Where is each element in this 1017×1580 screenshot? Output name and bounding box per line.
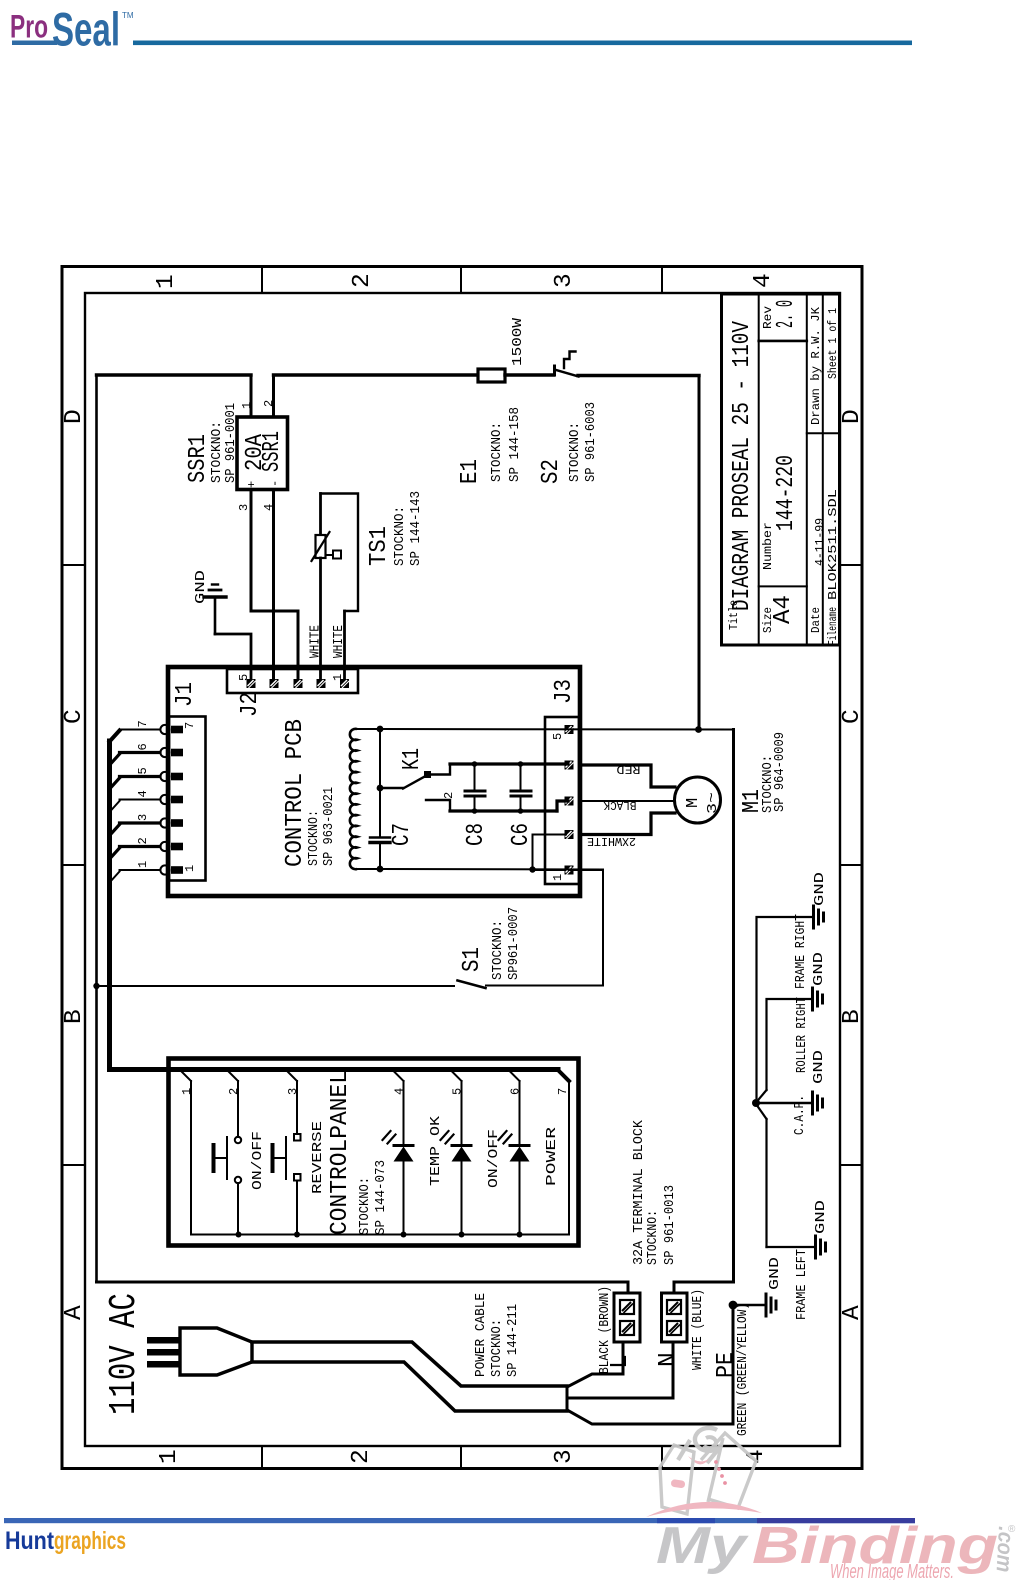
motor M1 body	[675, 777, 721, 823]
wire ROLLER RIGHT diagonal to junction	[757, 1090, 767, 1102]
push button REVERSE bridge	[285, 1137, 287, 1179]
push button ON/OFF top contact	[235, 1137, 241, 1143]
FRAME LEFT label	[794, 1249, 810, 1320]
GND label (C.A.P.)	[811, 1050, 827, 1084]
wire PE ground stem	[733, 1304, 765, 1306]
push button REVERSE top contact	[294, 1134, 301, 1141]
connector J2 label	[237, 692, 264, 717]
power cable upper outline	[252, 1342, 567, 1386]
svg-text:When Image Matters.: When Image Matters.	[830, 1561, 954, 1580]
CONTROL PCB board outline	[168, 667, 580, 896]
LED ON/OFF cathode bar	[452, 1144, 471, 1147]
connector J2 pin 4 contact	[270, 679, 279, 688]
LED ON/OFF triangle	[452, 1147, 472, 1162]
GND label (frame left)	[813, 1200, 829, 1234]
junction S1 line on L bus	[93, 983, 99, 989]
ground symbol PE	[766, 1294, 776, 1316]
M1 reference label	[739, 789, 766, 813]
push button switch ON/OFF wire top	[237, 1081, 239, 1137]
LED POWER wire bottom	[519, 1161, 521, 1235]
wire C7/K1 branch vertical	[379, 729, 381, 869]
LED label ON/OFF	[486, 1129, 502, 1188]
K1 pin 2 label	[442, 792, 456, 799]
frame ruler ticks bottom	[262, 1446, 662, 1468]
LED TEMP OK triangle	[394, 1147, 414, 1162]
J1 pin 7 number (inside housing)	[183, 722, 197, 729]
wire label RED	[617, 762, 641, 776]
CONTROLPANEL part number label	[373, 1160, 389, 1235]
junction C6 bottom	[518, 808, 524, 814]
wire loom end bend to panel pin7	[558, 1070, 569, 1081]
wire label WHITE (BLUE)	[690, 1289, 706, 1370]
panel pin 3 drop from loom	[288, 1072, 298, 1082]
wire SSR1 pin3 to J2 pin3 elbow	[251, 611, 298, 679]
frame zone number 4 (top)	[750, 273, 777, 288]
LED label POWER	[544, 1126, 560, 1186]
junction panel rail at x=461.5	[459, 1232, 465, 1238]
wire label GREEN (GREEN/YELLOW)	[735, 1303, 751, 1436]
push button ON/OFF bottom contact	[235, 1177, 241, 1183]
PE label	[713, 1352, 740, 1378]
relay contact K1 arm	[380, 776, 427, 789]
ground symbol FRAME RIGHT	[814, 906, 824, 928]
wire K1 to top rail	[431, 764, 450, 775]
panel pin 7 number	[556, 1088, 570, 1095]
panel pin 2 number	[227, 1088, 241, 1095]
push button REVERSE wire bottom	[296, 1181, 298, 1235]
connector J1 pin 7 contact	[160, 725, 183, 734]
K1 reference label	[399, 748, 426, 770]
ON/OFF switch label	[250, 1131, 266, 1190]
junction C6 top	[518, 761, 524, 767]
connector J1 housing	[169, 717, 206, 881]
TS1 stockno label	[392, 506, 408, 566]
title block border	[722, 294, 840, 645]
ROLLER RIGHT label	[794, 997, 810, 1073]
connector J3 pin 1 contact	[565, 866, 574, 875]
thermal switch S2 contact post	[553, 366, 556, 375]
ProSeal trademark mark	[122, 11, 134, 20]
J1 pin 1 number (outside)	[136, 861, 150, 868]
SSR1 part number label	[223, 403, 239, 483]
wire GND to J2 pin5 elbow	[215, 634, 251, 679]
MyBinding watermark text .com	[992, 1526, 1017, 1573]
ProSeal logo underline swash	[12, 41, 57, 46]
title block title text DIAGRAM PROSEAL 25 - 110V	[729, 321, 756, 611]
J3 pin 1 number	[551, 874, 565, 881]
SSR1 plus mark	[245, 481, 259, 488]
heater E1 resistor body	[478, 369, 505, 382]
title block label Size	[761, 607, 775, 633]
push button REVERSE wire top	[296, 1081, 298, 1134]
title block date value 4-11-99	[813, 518, 827, 566]
relay SSR1 pin 4 wire	[272, 490, 275, 680]
frame zone letter A (left)	[61, 1305, 88, 1320]
title block row dividers	[759, 341, 840, 587]
push button REVERSE bottom contact	[294, 1174, 301, 1181]
wire junction to FRAME LEFT vertical	[756, 1104, 767, 1247]
E1 stockno label	[489, 422, 505, 482]
capacitor C8 label	[463, 823, 490, 846]
GND label (PE)	[767, 1257, 783, 1290]
title block label Title	[727, 600, 741, 630]
wire top rail to J3 pin4 (motor red)	[450, 762, 568, 765]
CONTROLPANEL enclosure outline	[169, 1059, 579, 1246]
Huntgraphics logo	[5, 1527, 126, 1555]
SSR1 reference label	[185, 434, 212, 483]
junction C7 bottom	[377, 866, 384, 873]
junction PE node	[729, 1301, 738, 1310]
terminal L contact lower	[620, 1321, 634, 1335]
junction C.A.P. ground node	[752, 1099, 760, 1107]
junction panel rail at x=297	[294, 1232, 300, 1238]
junction C8 top	[472, 761, 478, 767]
frame zone number 2 (top)	[349, 273, 376, 288]
wire right vertical drop to motor net	[698, 376, 701, 730]
relay SSR1 pin 1 wire	[250, 375, 253, 417]
svg-text:®: ®	[1008, 1524, 1016, 1535]
wire FRAME LEFT ground stem	[767, 1246, 816, 1248]
frame zone letter B (right)	[839, 1009, 866, 1024]
panel pin 2 drop from loom	[229, 1072, 239, 1082]
J1 pin 6 number (outside)	[136, 743, 150, 750]
panel pin 7 vertical wire	[568, 1081, 570, 1235]
ground symbol C.A.P.	[813, 1092, 823, 1114]
drawing frame outer border	[62, 267, 862, 1469]
mains label 110V AC	[103, 1293, 146, 1415]
wire harness to J1 pin 5	[110, 777, 160, 789]
frame zone letter A (right)	[839, 1305, 866, 1320]
SSR1 value text 20A	[242, 434, 269, 471]
switch S1 blade	[458, 981, 486, 989]
TS1 wire label WHITE (left)	[308, 625, 324, 658]
S1 part number label	[506, 907, 522, 980]
J1 pin 4 number (outside)	[136, 790, 150, 797]
wire coil bottom rail to J3 pin1	[357, 868, 603, 871]
panel pin 1 vertical wire	[190, 1081, 192, 1235]
connector J2 pin 2 contact	[317, 679, 326, 688]
panel pin 4 number	[393, 1088, 407, 1095]
thermostat TS1 lead wire to J2 pin2 (WHITE)	[319, 558, 322, 679]
title block sheet 1 of 1	[826, 308, 840, 379]
wire harness to J1 pin 2	[110, 847, 160, 859]
connector J3 pin 3 contact	[565, 797, 574, 806]
LED POWER wire top	[519, 1081, 521, 1144]
wire bottom rail step to J3 pin3	[557, 801, 568, 811]
wire bus S2 to right corner	[578, 374, 699, 377]
connector J1 pin 2 contact	[160, 842, 183, 851]
M1 stockno label	[760, 755, 776, 813]
panel pin 5 drop from loom	[452, 1072, 462, 1082]
junction K1 pivot	[377, 785, 384, 792]
LED label TEMP OK	[428, 1115, 444, 1186]
connector J1 pin 4 contact	[160, 795, 183, 804]
title block label Number	[761, 522, 775, 570]
ground symbol GND (top, to J2 pin5)	[204, 585, 226, 635]
SSR1 value text SSR1	[259, 431, 286, 472]
footer blue rule	[4, 1518, 915, 1523]
LED TEMP OK cathode bar	[394, 1144, 413, 1147]
FRAME RIGHT label	[793, 914, 809, 989]
connector J3 pin 5 contact	[565, 725, 574, 734]
power cable lower outline	[252, 1362, 567, 1411]
SSR1 minus mark	[268, 480, 282, 487]
svg-text:Huntgraphics: Huntgraphics	[5, 1527, 126, 1555]
GND label (frame right)	[812, 872, 828, 906]
wire L feed to terminal L	[97, 1282, 629, 1293]
capacitor C7 plates	[370, 838, 390, 843]
frame ruler ticks left	[62, 565, 85, 1165]
relay SSR1 pin 2 wire	[272, 375, 275, 417]
SSR1 pin 1 label	[240, 402, 254, 409]
SSR1 pin 2 label	[262, 400, 276, 407]
S1 reference label	[459, 947, 486, 972]
E1 reference label	[457, 459, 484, 484]
wire L bus left vertical drop	[95, 375, 98, 1282]
title block size value A4	[770, 595, 797, 624]
title block label Date	[809, 607, 823, 633]
SSR1 stockno label	[209, 421, 225, 483]
relay SSR1 pin 3 wire	[250, 490, 253, 612]
panel pin 6 drop from loom	[510, 1072, 520, 1082]
capacitor C8	[465, 764, 485, 811]
wire S1 line right segment to J3 pin1	[486, 870, 603, 986]
push button ON/OFF wire bottom	[237, 1183, 239, 1235]
CONTROL PCB stockno label	[306, 810, 322, 866]
thermostat TS1 enclosure box	[321, 494, 359, 612]
header horizontal rule	[133, 41, 912, 46]
wire bottom rail	[450, 809, 557, 812]
wire J3 pin1 inside board	[533, 869, 566, 871]
wire PE down to power cable	[569, 1305, 733, 1424]
connector J1 pin 5 contact	[160, 772, 183, 781]
terminal N contact lower	[667, 1321, 681, 1335]
frame ruler ticks top	[262, 268, 662, 293]
frame zone letter D (right)	[839, 409, 866, 424]
frame zone number 1 (top)	[153, 274, 180, 289]
connector J3 label	[551, 679, 578, 704]
connector J3 pin 2 contact	[565, 830, 574, 839]
wire cable to terminal N (white/blue core)	[567, 1342, 673, 1398]
inductor coil (PCB)	[350, 729, 357, 869]
wire loom top bend to J1 pin7	[110, 731, 120, 742]
push button ON/OFF plunger	[214, 1145, 228, 1171]
wire J3 pin4 to motor (RED)	[580, 765, 675, 787]
frame zone number 3 (bottom)	[551, 1449, 578, 1464]
LED POWER cathode bar	[510, 1144, 529, 1147]
TS1 wire label WHITE (right)	[331, 625, 347, 658]
POWER CABLE label	[473, 1293, 489, 1377]
wire jumper to J3 pin2	[533, 835, 567, 870]
frame zone letter B (left)	[61, 1009, 88, 1024]
junction C8 bottom	[472, 808, 478, 814]
connector J2 housing	[227, 669, 358, 693]
junction N net at J3 pin5 line	[695, 726, 702, 733]
panel pin 3 number	[286, 1088, 300, 1095]
LED TEMP OK light rays	[383, 1131, 396, 1144]
wire harness to J1 pin 4	[110, 800, 160, 812]
C.A.P. label	[792, 1095, 808, 1135]
connector J3 housing	[545, 717, 579, 884]
MyBinding watermark text My	[656, 1517, 750, 1575]
junction panel rail at x=238.5	[236, 1232, 242, 1238]
wire label BLACK	[603, 798, 637, 812]
frame zone letter D (left)	[61, 409, 88, 424]
wire harness to J1 pin 3	[110, 823, 160, 835]
frame zone letter C (right)	[839, 709, 866, 724]
terminal block stockno label	[645, 1210, 661, 1265]
wire harness to J1 pin 7	[120, 729, 161, 731]
frame zone number 2 (bottom)	[348, 1449, 375, 1464]
GND label (roller right)	[811, 952, 827, 986]
wire FRAME RIGHT ground branch	[757, 917, 814, 1098]
wire C.A.P. ground stem	[756, 1102, 812, 1104]
CONTROLPANEL name label	[327, 1070, 354, 1235]
connector J1 pin 6 contact	[160, 748, 183, 757]
wire label BLACK (BROWN)	[597, 1286, 613, 1374]
panel pin 5 number	[451, 1088, 465, 1095]
push button ON/OFF bridge	[226, 1137, 228, 1179]
title block label Filename	[826, 607, 840, 645]
terminal block part number label	[662, 1185, 678, 1265]
CONTROL PCB part number label	[321, 787, 337, 866]
drawing frame inner border	[85, 293, 840, 1446]
SSR1 pin 4 label	[262, 504, 276, 511]
capacitor C6	[511, 764, 531, 811]
panel pin 1 drop from loom	[182, 1072, 192, 1082]
title block rev value 2.0	[773, 300, 800, 328]
junction J3 pin1 / pin2 jumper	[529, 866, 535, 872]
relay contact K1 fixed contact	[424, 771, 431, 778]
svg-text:My: My	[656, 1517, 750, 1575]
S1 stockno label	[490, 920, 506, 980]
TS1 reference label	[366, 526, 393, 566]
J2 pin 5 number	[237, 674, 251, 681]
LED POWER light rays	[499, 1131, 512, 1144]
J1 pin 7 number (outside)	[136, 720, 150, 727]
frame zone number 3 (top)	[551, 273, 578, 288]
S2 reference label	[538, 459, 565, 484]
LED ON/OFF wire bottom	[461, 1161, 463, 1235]
frame zone number 4 (bottom)	[743, 1449, 770, 1464]
capacitor C7 label	[389, 823, 416, 846]
LED POWER triangle	[510, 1147, 530, 1162]
terminal block N housing	[662, 1293, 688, 1342]
title block number value 144-220	[773, 455, 800, 531]
LED TEMP OK wire bottom	[403, 1161, 405, 1235]
panel pin 4 drop from loom	[394, 1072, 404, 1082]
ProSeal logo text Pro	[10, 9, 48, 45]
K1 pin 2 stub	[426, 800, 450, 811]
CONTROL PCB name label	[282, 719, 309, 867]
J3 pin 5 number	[551, 733, 565, 740]
connector J2 pin 3 contact	[294, 679, 303, 688]
REVERSE switch label	[310, 1121, 326, 1194]
junction coil-top branch	[377, 726, 384, 733]
terminal N contact upper	[667, 1300, 681, 1314]
thermostat TS1 lead wire upper	[319, 494, 322, 536]
junction panel rail at x=519.5	[517, 1232, 523, 1238]
power cable part number label	[505, 1304, 521, 1377]
MyBinding watermark text Binding	[752, 1517, 998, 1575]
panel common return rail	[191, 1234, 569, 1236]
wire harness to J1 pin 6	[110, 753, 160, 765]
MyBinding watermark scroll icon	[646, 1428, 762, 1517]
motor M1 symbol text M	[684, 798, 703, 808]
connector J2 pin 5 contact	[247, 679, 256, 688]
S2 part number label	[583, 402, 599, 482]
junction panel rail at x=403.5	[401, 1232, 407, 1238]
LED ON/OFF wire top	[461, 1081, 463, 1144]
thermostat TS1 element symbol	[312, 532, 342, 561]
ground symbol ROLLER RIGHT	[813, 988, 823, 1010]
connector J2 pin 1 contact	[340, 679, 349, 688]
frame zone number 1 (bottom)	[156, 1449, 183, 1464]
power plug prongs	[147, 1337, 180, 1368]
motor M1 symbol text 3~	[705, 792, 721, 814]
frame zone letter C (left)	[61, 709, 88, 724]
thermostat TS1 lead wire to J2 pin1 (WHITE)	[343, 611, 346, 679]
power cable end	[566, 1386, 569, 1411]
wire S1 line left segment	[97, 985, 455, 987]
J1 pin 2 number (outside)	[136, 837, 150, 844]
wire J3 pin2 to motor (2XWHITE)	[580, 813, 675, 835]
J1 pin 1 number (inside housing)	[183, 865, 197, 872]
wire loom vertical (left harness)	[107, 741, 112, 1069]
connector J1 label	[172, 682, 199, 707]
frame ruler ticks right	[840, 565, 862, 1165]
M1 part number label	[772, 732, 788, 812]
J2 pin 1 number	[331, 674, 345, 681]
terminal L label	[607, 1354, 634, 1369]
TS1 part number label	[408, 491, 424, 566]
wire L bus E1 to S2 segment	[505, 373, 554, 376]
ground symbol FRAME LEFT	[816, 1236, 826, 1258]
GND label (top)	[193, 570, 209, 604]
connector J1 pin 1 contact	[160, 865, 183, 874]
power cable stockno label	[489, 1319, 505, 1377]
wire N feed to terminal N	[674, 1282, 734, 1293]
title block drawn by	[809, 306, 823, 425]
E1 part number label	[507, 407, 523, 482]
LED ON/OFF light rays	[441, 1131, 454, 1144]
MyBinding watermark registered mark	[1008, 1524, 1016, 1535]
power plug body	[180, 1328, 252, 1375]
panel pin 6 number	[509, 1088, 523, 1095]
panel pin 1 number	[180, 1088, 194, 1095]
push button REVERSE plunger	[273, 1145, 287, 1171]
MyBinding watermark tagline	[830, 1561, 954, 1580]
relay SSR1 body	[237, 417, 288, 490]
title block label Rev	[761, 306, 775, 329]
J1 pin 3 number (outside)	[136, 814, 150, 821]
S2 stockno label	[567, 422, 583, 482]
thermal switch S2 thermal step symbol	[564, 352, 576, 369]
E1 value label 1500W	[510, 317, 526, 366]
connector J3 pin 4 contact	[565, 761, 574, 770]
terminal N label	[655, 1352, 682, 1367]
thermal switch S2 blade	[555, 370, 579, 377]
title block filename value BLOK2511.SDL	[826, 489, 840, 600]
SSR1 pin 3 label	[237, 504, 251, 511]
capacitor C6 label	[508, 823, 535, 846]
wire harness loom into panel	[110, 1067, 559, 1070]
terminal block L housing	[614, 1293, 640, 1342]
wire coil top to J3 pin5 net	[357, 728, 734, 731]
wire J3 pin3 to motor (BLACK)	[580, 800, 675, 802]
wire harness to J1 pin 1	[110, 870, 160, 882]
LED TEMP OK wire top	[403, 1081, 405, 1144]
